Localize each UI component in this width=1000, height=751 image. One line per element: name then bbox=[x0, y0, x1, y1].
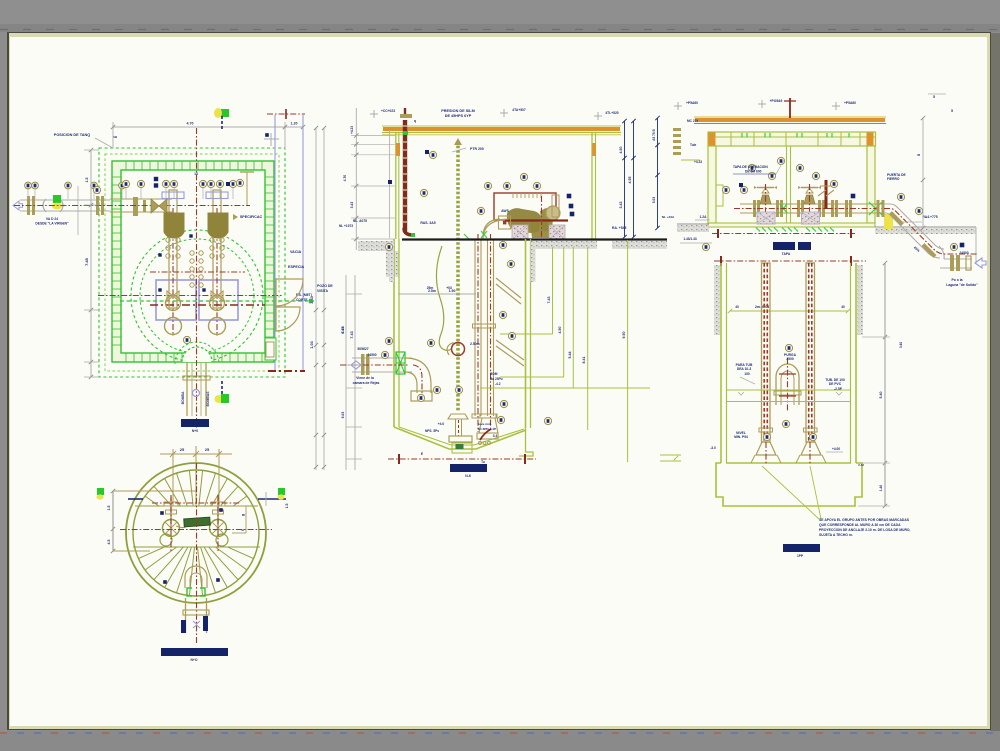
green pipe crossing marks bbox=[780, 202, 882, 215]
svg-text:TAPA DE OPERACION: TAPA DE OPERACION bbox=[733, 165, 768, 169]
left wall d3 bbox=[708, 146, 716, 223]
pump unit right bbox=[804, 195, 815, 204]
left lower dims bbox=[346, 293, 362, 295]
main centerline d3 bbox=[734, 208, 888, 210]
gray tee marker bbox=[264, 138, 279, 140]
svg-text:8.41: 8.41 bbox=[582, 357, 586, 364]
inlet pipe bell bbox=[43, 199, 63, 212]
manifold center mass bbox=[530, 222, 550, 238]
svg-text:-2.5P: -2.5P bbox=[834, 387, 843, 391]
svg-text:+PO5A9: +PO5A9 bbox=[770, 99, 783, 103]
svg-text:40: 40 bbox=[841, 305, 845, 309]
svg-text:MC 279: MC 279 bbox=[687, 119, 698, 123]
tank circle dashed inner bbox=[140, 239, 254, 353]
dim extension verticals bbox=[172, 449, 174, 506]
svg-text:1.5: 1.5 bbox=[285, 504, 289, 509]
svg-text:N-6: N-6 bbox=[465, 474, 471, 478]
svg-text:Tu: Tu bbox=[481, 460, 485, 464]
ground hatch patches bbox=[358, 241, 395, 251]
channel marker bbox=[215, 395, 224, 403]
bypass riser bbox=[246, 172, 248, 205]
svg-text:Tule: Tule bbox=[690, 143, 697, 147]
svg-text:+4.00: +4.00 bbox=[832, 447, 840, 451]
manifold red main bbox=[505, 219, 568, 221]
svg-text:SPECIFICAC: SPECIFICAC bbox=[240, 215, 263, 219]
diagonal flanges bbox=[889, 211, 904, 226]
svg-text:100: 100 bbox=[744, 372, 750, 376]
roof center red mark bbox=[789, 98, 791, 118]
top dimension line bbox=[113, 126, 303, 128]
purple valve bbox=[193, 621, 200, 628]
circular tank outer ring bbox=[126, 463, 266, 603]
svg-text:3.40: 3.40 bbox=[899, 342, 903, 348]
hose loop bbox=[452, 343, 465, 356]
hoist cable bbox=[436, 246, 453, 350]
svg-text:POSICION DE TANQ: POSICION DE TANQ bbox=[54, 133, 90, 137]
svg-text:3.4: 3.4 bbox=[493, 434, 498, 438]
bottom strip with tick marks bbox=[0, 731, 1000, 751]
ceiling green ticks bbox=[741, 133, 743, 138]
drop pipe right bbox=[806, 263, 815, 442]
manifold risers bbox=[541, 196, 543, 238]
ground hatch left bbox=[677, 223, 709, 225]
svg-text:6.03: 6.03 bbox=[341, 412, 345, 419]
inlet arrow purple bbox=[351, 361, 361, 369]
well right wall bbox=[850, 263, 852, 463]
svg-text:3.43: 3.43 bbox=[310, 296, 314, 303]
circle center EW line bbox=[98, 295, 283, 297]
pump centerline left bbox=[172, 208, 174, 336]
svg-text:RA4.+775: RA4.+775 bbox=[922, 215, 937, 219]
lower centerline d3 bbox=[712, 233, 855, 235]
outlet centerline bbox=[884, 209, 979, 255]
svg-text:4TA+507: 4TA+507 bbox=[512, 108, 526, 112]
left dims d3 bbox=[657, 118, 659, 228]
svg-text:PTR 200: PTR 200 bbox=[470, 147, 484, 151]
svg-text:+03: +03 bbox=[446, 286, 452, 290]
right lavender dim lines bbox=[274, 115, 276, 370]
water line bbox=[398, 293, 476, 295]
svg-text:BOMBAS: BOMBAS bbox=[206, 391, 210, 407]
svg-text:7.47: 7.47 bbox=[341, 327, 345, 334]
valve bowties bbox=[167, 291, 179, 301]
svg-text:-3.0: -3.0 bbox=[710, 446, 716, 450]
svg-text:E1 6PD-3.4P: E1 6PD-3.4P bbox=[478, 427, 496, 431]
riser roof junction bbox=[403, 131, 408, 135]
house left wall bbox=[395, 133, 397, 239]
pump base wheels bbox=[166, 296, 181, 311]
door arc lower bbox=[276, 307, 300, 331]
left dim verticals bbox=[355, 108, 357, 250]
svg-text:1PP: 1PP bbox=[797, 554, 804, 558]
right dim d4 bbox=[884, 263, 886, 506]
center divider bbox=[786, 146, 788, 223]
house right wall bbox=[591, 133, 593, 239]
callout balloons row bbox=[122, 180, 129, 187]
svg-text:1.20: 1.20 bbox=[291, 122, 298, 126]
svg-text:NL +1073: NL +1073 bbox=[339, 224, 353, 228]
inlet pipe flanges bbox=[27, 196, 30, 215]
svg-text:4.55: 4.55 bbox=[628, 177, 632, 184]
navy gate bars bbox=[181, 620, 186, 633]
svg-text:VA D 24: VA D 24 bbox=[46, 217, 58, 221]
wall crossing highlight bbox=[884, 214, 893, 229]
wall rung hatches bbox=[125, 161, 127, 170]
svg-text:9.50: 9.50 bbox=[622, 332, 626, 339]
svg-text:7.45: 7.45 bbox=[84, 257, 89, 266]
scale bar 4 bbox=[783, 544, 820, 552]
svg-text:MIN. P54: MIN. P54 bbox=[734, 435, 748, 439]
svg-text:RA. +545: RA. +545 bbox=[612, 226, 627, 230]
channel purple valve bbox=[193, 390, 200, 397]
right wall d3 bbox=[867, 146, 875, 223]
main pipe horizontal bbox=[740, 203, 884, 205]
svg-text:Viene de la: Viene de la bbox=[356, 376, 374, 380]
svg-text:+4.23: +4.23 bbox=[350, 126, 354, 134]
inlet pipe west bbox=[352, 357, 412, 359]
riser flange ticks bbox=[402, 125, 407, 127]
suction bell right pipe bbox=[480, 414, 497, 418]
right markers bbox=[258, 498, 286, 500]
riser pipes down bbox=[474, 239, 476, 416]
svg-text:2.43: 2.43 bbox=[858, 463, 864, 467]
svg-text:tuve mm.: tuve mm. bbox=[478, 422, 492, 426]
ground hatch right bbox=[875, 226, 976, 228]
sump box bbox=[452, 443, 472, 453]
top markers d3 bbox=[674, 105, 682, 107]
svg-text:Laguna "de Solido": Laguna "de Solido" bbox=[946, 283, 978, 287]
svg-text:+CC+023: +CC+023 bbox=[381, 109, 395, 113]
chord lines bbox=[135, 505, 258, 507]
svg-text:CORTE: CORTE bbox=[296, 298, 308, 302]
bottom wall arch opening bbox=[182, 347, 212, 362]
svg-text:1.2A: 1.2A bbox=[700, 215, 708, 219]
ceiling band bbox=[708, 132, 876, 146]
svg-text:VACIA: VACIA bbox=[290, 250, 302, 254]
pump anchors speckled bbox=[757, 212, 775, 224]
svg-text:2.50m: 2.50m bbox=[470, 342, 480, 346]
pump symbol right bbox=[217, 497, 219, 526]
roof slab bbox=[382, 125, 621, 127]
riser flanges bbox=[473, 324, 496, 328]
green cross flange bbox=[396, 352, 405, 374]
scale bar 2 bbox=[161, 648, 228, 656]
bell mouths bbox=[756, 442, 776, 455]
svg-text:PRESION DE SILM: PRESION DE SILM bbox=[441, 109, 475, 113]
svg-text:q: q bbox=[414, 119, 416, 123]
manifold pumps tan bbox=[507, 208, 541, 233]
bottom outlet channel bbox=[186, 362, 188, 416]
hatch covers navy bbox=[773, 242, 795, 250]
svg-text:DE PVC: DE PVC bbox=[829, 382, 842, 386]
svg-text:5: 5 bbox=[933, 95, 935, 99]
manifold top hatch bbox=[512, 193, 514, 198]
plan excavation outline dashed inner bbox=[105, 154, 279, 371]
main NS centerline bbox=[196, 128, 198, 428]
pump upper centerline bbox=[150, 271, 245, 273]
lower red line bbox=[150, 304, 265, 306]
svg-text:40: 40 bbox=[735, 305, 739, 309]
top right red segment bbox=[267, 113, 305, 115]
flange bolt pairs bbox=[166, 238, 170, 242]
top marker green square bbox=[221, 109, 229, 117]
pump assembly left riser bbox=[169, 190, 177, 308]
inlet callouts bbox=[25, 182, 32, 189]
svg-text:4.50: 4.50 bbox=[558, 327, 562, 334]
svg-text:ESPECIA: ESPECIA bbox=[288, 265, 305, 269]
page drop zone right bbox=[990, 33, 1000, 751]
roof slab d3 bbox=[694, 116, 886, 118]
svg-text:25: 25 bbox=[180, 447, 185, 452]
crosshair centerlines bbox=[196, 463, 198, 643]
center sluice gate bbox=[184, 517, 210, 527]
svg-text:AWS: AWS bbox=[501, 209, 509, 213]
svg-text:4.70: 4.70 bbox=[343, 175, 347, 182]
left markers bbox=[97, 488, 104, 495]
channel crossbar bbox=[183, 610, 209, 615]
left dim bracket bbox=[112, 491, 114, 551]
svg-text:+P5A60: +P5A60 bbox=[686, 101, 698, 105]
left dimension chain bbox=[90, 150, 92, 377]
main EW centerline bbox=[14, 205, 250, 207]
svg-text:4.70: 4.70 bbox=[187, 122, 194, 126]
tank right wall bbox=[525, 239, 527, 428]
svg-text:-4.2: -4.2 bbox=[495, 382, 501, 386]
spoke mask band bbox=[128, 506, 265, 547]
svg-text:1.5: 1.5 bbox=[85, 178, 89, 183]
right wall recess bbox=[265, 338, 276, 360]
discharge riser pipe bbox=[403, 120, 407, 232]
svg-text:TAPA: TAPA bbox=[782, 252, 791, 256]
top toolbar strip bbox=[0, 0, 1000, 24]
svg-text:RAS. 3A5: RAS. 3A5 bbox=[420, 221, 435, 225]
chain weight foot bbox=[448, 414, 468, 419]
svg-text:25m: 25m bbox=[427, 286, 434, 290]
scale bar 1 bbox=[181, 419, 209, 427]
svg-text:camara de Rejas: camara de Rejas bbox=[353, 381, 380, 385]
svg-text:Ba 23Pu: Ba 23Pu bbox=[490, 377, 503, 381]
pump body right bbox=[208, 213, 228, 238]
svg-text:1.03: 1.03 bbox=[310, 341, 314, 348]
svg-text:1.43/1.43: 1.43/1.43 bbox=[683, 237, 697, 241]
svg-text:NL. A075: NL. A075 bbox=[353, 219, 367, 223]
svg-text:5: 5 bbox=[951, 109, 953, 113]
right dim chain olive bbox=[552, 247, 554, 334]
riser bottom elbow bbox=[404, 228, 413, 235]
well left wall bbox=[720, 263, 722, 463]
west flow arrow purple bbox=[13, 201, 23, 210]
inner right dim bbox=[245, 506, 247, 533]
svg-text:3.43: 3.43 bbox=[619, 202, 623, 209]
green flow dashed line bbox=[120, 300, 314, 302]
plan tank wall inner bbox=[121, 170, 265, 353]
svg-text:24500: 24500 bbox=[367, 353, 376, 357]
green valve marker bbox=[53, 195, 61, 203]
svg-text:BOMBA: BOMBA bbox=[181, 391, 185, 404]
svg-text:4.5: 4.5 bbox=[107, 540, 111, 545]
door arc upper bbox=[276, 279, 303, 306]
svg-text:505627: 505627 bbox=[357, 347, 368, 351]
svg-text:QUE CORRESPONDE AL MURO A 30 c: QUE CORRESPONDE AL MURO A 30 cm DE CADA bbox=[819, 523, 901, 527]
svg-text:2500: 2500 bbox=[786, 357, 794, 361]
floor slab bbox=[708, 223, 875, 227]
inlet valve bowtie bbox=[151, 199, 167, 213]
pipe flanges d4 bbox=[759, 428, 773, 432]
svg-text:POZO DE: POZO DE bbox=[317, 284, 333, 288]
svg-text:1.5: 1.5 bbox=[107, 506, 111, 511]
misc balloons bbox=[93, 186, 100, 193]
water levels bbox=[726, 389, 851, 391]
pump body left bbox=[164, 213, 184, 238]
plan excavation outline dashed outer bbox=[99, 148, 285, 377]
svg-text:5.44: 5.44 bbox=[568, 352, 572, 359]
tank circle dashed outer bbox=[131, 230, 263, 362]
manifold volute bbox=[546, 206, 560, 220]
manifold outline bbox=[494, 193, 556, 220]
right gray dim lines bbox=[315, 128, 317, 470]
right dims d3 bbox=[922, 118, 924, 228]
svg-text:5.40: 5.40 bbox=[879, 392, 883, 399]
svg-text:A5 75 B: A5 75 B bbox=[652, 128, 656, 140]
svg-text:6: 6 bbox=[241, 529, 245, 531]
svg-text:13: 13 bbox=[194, 172, 198, 176]
well top rim centerline bbox=[714, 260, 866, 262]
svg-text:+P5A60: +P5A60 bbox=[844, 101, 856, 105]
svg-text:DE 5M 600: DE 5M 600 bbox=[745, 170, 762, 174]
top dim bracket bbox=[160, 453, 232, 455]
right wall footing bbox=[519, 428, 533, 456]
green gate brackets bbox=[187, 588, 205, 596]
ceiling orange blocks bbox=[709, 133, 716, 146]
well floor and base bbox=[726, 462, 851, 464]
right dim connectors bbox=[500, 333, 553, 335]
svg-text:BOM: BOM bbox=[490, 372, 498, 376]
outlet arch below circle bbox=[185, 566, 207, 588]
svg-text:DESDE "LA VIRGEN": DESDE "LA VIRGEN" bbox=[35, 222, 69, 226]
svg-text:1.40: 1.40 bbox=[879, 485, 883, 492]
ground line bbox=[402, 238, 667, 240]
fan labels bbox=[160, 511, 164, 515]
svg-text:N+O: N+O bbox=[190, 658, 197, 662]
elbow base green marks bbox=[464, 231, 487, 239]
purple pump pit left bbox=[156, 280, 196, 320]
radial spokes bbox=[133, 470, 259, 595]
inlet centerline bbox=[340, 364, 408, 366]
svg-text:DE 45HPS 6YP: DE 45HPS 6YP bbox=[445, 114, 472, 118]
southeast heavy red line bbox=[268, 370, 305, 372]
svg-text:4.50: 4.50 bbox=[619, 147, 623, 154]
pump cross lines bbox=[152, 502, 240, 504]
svg-text:E: E bbox=[421, 452, 423, 456]
center purge arch bbox=[776, 364, 799, 405]
speckled anchors bbox=[512, 225, 528, 240]
outside wall hatch bbox=[389, 241, 394, 282]
outlet channel walls bbox=[185, 598, 187, 633]
pump assembly right riser bbox=[213, 190, 221, 308]
svg-text:N+0: N+0 bbox=[192, 429, 198, 433]
wall hatch bands bbox=[714, 265, 720, 335]
wall exit flanges bbox=[877, 200, 880, 217]
svg-text:24500: 24500 bbox=[959, 251, 968, 255]
tank left wall bbox=[393, 239, 395, 427]
inlet pipe from west bbox=[20, 199, 110, 201]
svg-text:4TL+520: 4TL+520 bbox=[605, 111, 618, 115]
wall braces bbox=[496, 278, 521, 304]
lifting chain bbox=[456, 141, 460, 412]
bottom arch outer dashed bbox=[175, 342, 219, 364]
svg-text:FIERRO: FIERRO bbox=[887, 177, 900, 181]
svg-text:3.43: 3.43 bbox=[350, 202, 354, 209]
pump symbol left bbox=[170, 497, 172, 526]
outlet pipe diagonal bbox=[884, 204, 944, 249]
red stem bbox=[825, 180, 828, 209]
tank hopper bottom bbox=[394, 427, 526, 449]
right navy dims bbox=[624, 121, 626, 237]
svg-text:NL +23A: NL +23A bbox=[662, 215, 675, 219]
manifold elbow bbox=[483, 219, 500, 237]
square flange bbox=[499, 216, 511, 229]
inlet elbow bbox=[405, 358, 431, 393]
elbow foot bbox=[411, 391, 432, 401]
purple pump pit right bbox=[199, 280, 238, 320]
riser top tee bbox=[400, 114, 412, 118]
svg-text:5.03: 5.03 bbox=[652, 197, 656, 204]
circular tank inner ring bbox=[133, 470, 259, 596]
left ladder bbox=[673, 128, 681, 131]
svg-text:Po o la: Po o la bbox=[951, 278, 962, 282]
svg-text:NPS. 5Ps: NPS. 5Ps bbox=[425, 429, 439, 433]
svg-text:PROYECCION DE ANCLAJE 2.10 m.: PROYECCION DE ANCLAJE 2.10 m. DE LOSA DE… bbox=[819, 528, 911, 532]
pit callout squares bbox=[158, 288, 161, 291]
left dim extension bbox=[77, 186, 79, 235]
svg-text:SE APOYA EL GRUPO ANTES POR OB: SE APOYA EL GRUPO ANTES POR OBRAS MARCAD… bbox=[819, 518, 910, 522]
spec arrow label bbox=[233, 214, 238, 220]
svg-text:g: g bbox=[241, 514, 245, 516]
plan tank wall outer bbox=[112, 161, 274, 362]
svg-text:7.43: 7.43 bbox=[350, 331, 354, 338]
under-floor green hatch bbox=[756, 228, 760, 232]
d4 callouts bbox=[785, 344, 792, 351]
svg-text:7.43: 7.43 bbox=[547, 297, 551, 304]
svg-text:+4.23: +4.23 bbox=[694, 160, 702, 164]
svg-text:DEA 10-3: DEA 10-3 bbox=[737, 367, 752, 371]
pump centerline right bbox=[216, 208, 218, 336]
callouts d3 bbox=[748, 164, 755, 171]
svg-text:25: 25 bbox=[205, 447, 210, 452]
scale bar 3 bbox=[450, 464, 487, 472]
bottom centerline bbox=[388, 458, 536, 460]
svg-text:+4.0: +4.0 bbox=[438, 422, 445, 426]
pump unit left bbox=[760, 195, 771, 204]
svg-text:SUJETA A TECHO m.: SUJETA A TECHO m. bbox=[819, 533, 853, 537]
door niche left wall bbox=[716, 185, 723, 206]
svg-text:VISITA: VISITA bbox=[317, 289, 328, 293]
misc callouts d2 bbox=[429, 151, 436, 158]
leader lines to note bbox=[762, 466, 819, 519]
drop pipe left bbox=[762, 263, 771, 442]
inner width dim bbox=[730, 310, 848, 312]
outlet end flanges bbox=[950, 255, 954, 271]
